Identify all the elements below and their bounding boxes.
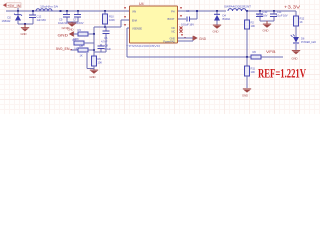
svg-text:REF=1.221V: REF=1.221V xyxy=(258,67,306,81)
diode D2 TVS 1N5342 xyxy=(2,11,22,24)
svg-text:NC: NC xyxy=(171,30,175,34)
ground FB divider xyxy=(242,88,251,97)
capacitor C11 0.1uF xyxy=(270,10,288,21)
svg-text:R10: R10 xyxy=(109,15,114,19)
wire main +5V rail xyxy=(6,10,129,12)
svg-text:U4: U4 xyxy=(139,2,144,6)
LED D3 POWER_LED xyxy=(291,34,316,50)
svg-text:NC: NC xyxy=(171,26,175,30)
svg-text:VSENSE: VSENSE xyxy=(132,27,142,31)
wire GND PowerPAD stubs xyxy=(178,38,193,41)
resistor R6 FB top 10K xyxy=(245,11,256,57)
svg-text:R11: R11 xyxy=(251,67,256,71)
svg-text:+3.3V: +3.3V xyxy=(284,5,300,10)
svg-text:R12: R12 xyxy=(300,17,305,21)
svg-text:PH: PH xyxy=(171,9,175,13)
node FB junction xyxy=(246,56,248,58)
svg-text:GND: GND xyxy=(213,30,219,34)
inductor L1 xyxy=(36,5,58,12)
ground EN divider xyxy=(90,70,99,80)
wire PH rail xyxy=(178,10,226,12)
capacitor C10 22uF xyxy=(256,10,268,21)
capacitor C6 4.7nF on EN xyxy=(101,27,110,44)
svg-text:C12: C12 xyxy=(37,15,42,19)
svg-text:22uF/16V: 22uF/16V xyxy=(257,14,268,18)
svg-text:10K: 10K xyxy=(251,70,256,74)
svg-text:B340A: B340A xyxy=(223,17,231,21)
svg-text:ENA: ENA xyxy=(132,19,137,23)
resistor R8 FB bottom 10K xyxy=(245,57,256,88)
svg-text:GND: GND xyxy=(263,29,269,33)
node PH-boot junction xyxy=(196,10,198,12)
svg-text:GND: GND xyxy=(199,37,207,41)
svg-text:GND: GND xyxy=(21,32,27,36)
ground output caps xyxy=(263,21,272,33)
svg-text:1K: 1K xyxy=(80,54,83,58)
svg-text:VIN: VIN xyxy=(132,10,136,14)
node bus mid xyxy=(93,49,95,51)
svg-text:GND: GND xyxy=(62,26,70,30)
GND port left arrow xyxy=(58,26,79,38)
wire EN divider bus xyxy=(93,34,95,56)
node junction at diode xyxy=(17,10,19,12)
svg-text:10uH/m 5A: 10uH/m 5A xyxy=(40,5,58,9)
ground mid caps xyxy=(68,22,77,32)
IC U1 regulator body xyxy=(130,2,178,44)
pin number marks right xyxy=(180,7,182,9)
resistor R4 1K xyxy=(71,44,94,57)
svg-text:PowerPAD: PowerPAD xyxy=(163,40,175,44)
svg-text:GND: GND xyxy=(58,34,69,38)
svg-text:5V0_EN: 5V0_EN xyxy=(56,47,70,51)
node junction at C2 xyxy=(32,10,34,12)
boot cap C9 xyxy=(178,9,197,27)
svg-text:1uF/16V: 1uF/16V xyxy=(37,18,47,22)
svg-text:1N5342: 1N5342 xyxy=(2,19,11,23)
wire output caps join xyxy=(260,20,274,22)
wire C6 bottom join xyxy=(94,44,106,52)
svg-text:SWPA4030S2R2NT: SWPA4030S2R2NT xyxy=(224,5,251,9)
svg-text:GND: GND xyxy=(90,75,96,79)
node bus top xyxy=(93,33,95,35)
resistor R9 LED 1K xyxy=(294,16,305,37)
wire diode-cap bottom join xyxy=(18,23,33,25)
svg-text:C10: C10 xyxy=(263,10,268,14)
resistor R5 10K pulldown xyxy=(87,53,102,70)
ground right-facing PowerPAD xyxy=(193,36,207,41)
svg-text:+5V_IN: +5V_IN xyxy=(7,3,21,8)
ground catch diode xyxy=(213,25,222,34)
svg-text:100K: 100K xyxy=(109,18,115,22)
svg-text:10K: 10K xyxy=(98,61,103,65)
svg-text:0.1uF: 0.1uF xyxy=(105,47,112,51)
resistor R7 FB series xyxy=(251,50,261,59)
node output junction xyxy=(246,10,248,12)
capacitor C2 input xyxy=(29,11,46,24)
wire VSENSE feedback xyxy=(127,28,283,57)
capacitor C7 xyxy=(72,10,84,25)
wire EN jog to pin xyxy=(105,20,129,27)
capacitor C5 xyxy=(58,10,70,25)
sheet background xyxy=(0,0,320,114)
ground LED xyxy=(292,50,301,60)
wire EN left drop to divider bus xyxy=(94,27,105,34)
resistor R2 180K xyxy=(73,28,94,41)
svg-text:GND: GND xyxy=(242,94,248,98)
svg-text:C11: C11 xyxy=(277,10,282,14)
svg-text:1K: 1K xyxy=(300,20,303,24)
wire cap bottoms join xyxy=(67,21,78,23)
svg-text:10K: 10K xyxy=(251,24,256,28)
svg-text:TPS560200DBVR: TPS560200DBVR xyxy=(126,44,161,48)
resistor R3 NC xyxy=(73,38,95,51)
capacitor C8 0.1uF xyxy=(98,43,112,52)
pin number marks left xyxy=(124,7,126,9)
ground input GND xyxy=(21,23,30,36)
svg-text:GND: GND xyxy=(292,56,298,60)
port +5V_IN xyxy=(3,3,21,11)
resistor R1 100K EN pullup xyxy=(103,10,116,27)
svg-text:BOOT: BOOT xyxy=(168,17,175,21)
svg-text:VFB: VFB xyxy=(266,50,277,54)
NC cross marks xyxy=(180,27,183,33)
wire output rail xyxy=(246,10,296,12)
wire LED chain drop xyxy=(295,11,297,16)
svg-text:4.7nF: 4.7nF xyxy=(101,40,108,44)
diode D4 B340A catch xyxy=(214,10,230,25)
node rail junction xyxy=(60,10,62,12)
svg-text:POWER_LED: POWER_LED xyxy=(301,40,316,44)
svg-text:0.01uF 16V: 0.01uF 16V xyxy=(181,23,194,27)
node EN junction xyxy=(104,26,106,28)
inductor L2 xyxy=(224,5,251,12)
svg-text:0.1uF 16V: 0.1uF 16V xyxy=(276,14,288,18)
